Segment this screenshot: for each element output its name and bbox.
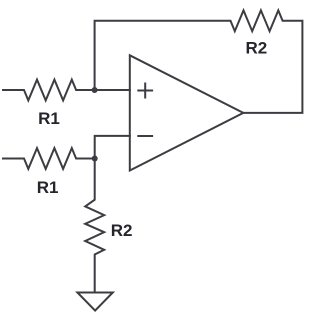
svg-text:R1: R1	[37, 178, 59, 197]
svg-text:R2: R2	[246, 38, 268, 57]
svg-text:R2: R2	[111, 221, 133, 240]
svg-text:R1: R1	[38, 109, 60, 128]
